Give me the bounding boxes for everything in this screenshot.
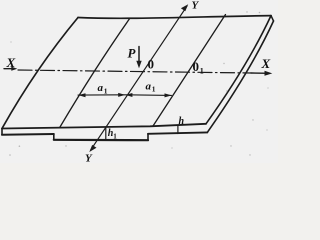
svg-text:0: 0	[193, 59, 200, 74]
svg-text:X: X	[6, 55, 16, 70]
plate right thickness edge	[207, 21, 273, 132]
dim arrow left end	[78, 93, 85, 97]
Y axis line	[91, 6, 187, 150]
X axis left stub arrowhead	[11, 67, 17, 71]
scan speckles	[9, 11, 268, 156]
svg-text:1: 1	[152, 85, 156, 94]
plate bottom step down	[53, 134, 55, 140]
plate bottom edge middle	[54, 139, 148, 142]
P force arrow shaft	[138, 47, 140, 64]
Y axis bottom arrowhead	[89, 145, 96, 152]
plate left edge	[2, 18, 78, 129]
X axis right arrowhead	[265, 71, 273, 76]
svg-text:X: X	[261, 56, 271, 71]
P arrowhead	[136, 61, 141, 69]
dim arrow right end	[165, 93, 172, 97]
dim arrows middle junction	[118, 93, 125, 97]
h1 dimension tick	[105, 128, 107, 140]
svg-text:1: 1	[104, 87, 108, 96]
dimension line a1 spans	[78, 94, 172, 97]
plate bottom edge left	[2, 133, 54, 136]
X axis dash-dot	[18, 70, 251, 73]
panel line left	[60, 19, 130, 127]
svg-text:a: a	[98, 82, 104, 94]
plate right edge (top face)	[206, 16, 271, 124]
plate left end vertical	[1, 129, 3, 135]
svg-text:1: 1	[113, 133, 117, 141]
panel line right through 0_1	[153, 15, 226, 127]
X axis right solid end	[251, 72, 270, 74]
plate bottom edge right	[148, 132, 207, 133]
svg-text:a: a	[146, 81, 152, 93]
svg-text:h: h	[179, 116, 185, 127]
plate bottom step up	[147, 134, 149, 140]
plate right corner cut	[271, 16, 274, 21]
plate front edge	[2, 124, 206, 129]
h dimension tick	[177, 126, 179, 134]
X axis left stub arrow shaft	[4, 68, 15, 70]
svg-text:0: 0	[148, 57, 155, 72]
svg-text:1: 1	[200, 67, 204, 76]
svg-text:P: P	[128, 46, 137, 61]
Y axis top arrowhead	[181, 4, 188, 11]
plate top edge	[78, 16, 271, 19]
